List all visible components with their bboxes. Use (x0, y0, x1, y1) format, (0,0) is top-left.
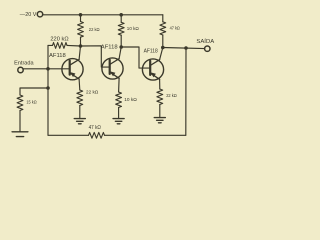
wire top rail (43, 14, 163, 16)
svg-text:SAÍDA: SAÍDA (196, 38, 214, 45)
svg-text:15 kΩ: 15 kΩ (26, 100, 36, 106)
wire R3 bottom (162, 35, 164, 48)
wire bias column (47, 45, 49, 135)
resistor R8 47k feedback (89, 132, 105, 138)
wire R1 bottom (80, 37, 82, 46)
wire Q3 collector up (160, 48, 163, 60)
wire feedback right column (185, 48, 187, 135)
wire 15k branch (20, 88, 48, 95)
label 220 kΩ (R4) (50, 36, 68, 42)
label 22 kΩ (R7) (166, 93, 177, 99)
resistor R7 22k emitter Q3 (157, 89, 163, 105)
node Q1 collector (79, 44, 83, 48)
wire coupling Q2-Q3 (121, 47, 150, 68)
wire 220k left stub (48, 44, 53, 46)
wire Q3 emitter down (159, 79, 161, 89)
svg-text:10 kΩ: 10 kΩ (127, 26, 139, 32)
node rail-R2 (119, 13, 123, 17)
label 10 kΩ (R6) (124, 97, 137, 103)
transistor Q1 AF118 (62, 59, 83, 80)
wire coupling Q1-Q2 (81, 46, 110, 67)
wire R2 top (120, 15, 122, 22)
terminal -20V (37, 12, 42, 17)
label 22 kΩ (R5) (86, 90, 99, 96)
svg-text:AF118: AF118 (49, 53, 66, 59)
wire R5 to ground (79, 106, 81, 119)
wire R9 to ground (19, 111, 21, 132)
svg-text:22 kΩ: 22 kΩ (166, 93, 177, 99)
wire R7 to ground (159, 105, 161, 118)
svg-text:22 kΩ: 22 kΩ (89, 27, 100, 33)
svg-text:—20 V: —20 V (20, 12, 37, 18)
resistor R9 15k bias divider (17, 95, 23, 111)
node rail-R1 (79, 13, 83, 17)
svg-text:Entrada: Entrada (14, 60, 34, 66)
node output feedback tap (184, 46, 188, 50)
wire bottom rail left (48, 134, 89, 136)
label 10 kΩ (R2) (127, 26, 139, 32)
ground Q3 emitter (154, 118, 165, 123)
svg-text:10 kΩ: 10 kΩ (124, 97, 137, 103)
wire Q1 collector up (79, 46, 80, 59)
label AF118 (Q2) (101, 44, 118, 50)
wire 220k right stub (67, 44, 81, 47)
terminal SAIDA output (205, 46, 210, 51)
svg-text:47 kΩ: 47 kΩ (170, 25, 180, 31)
label -20 V supply (20, 12, 37, 18)
svg-text:AF118: AF118 (101, 44, 118, 50)
wire Q1 emitter down (78, 79, 81, 90)
ground Q1 emitter (74, 119, 85, 124)
label Entrada (14, 60, 34, 66)
terminal Entrada input (18, 67, 23, 72)
svg-text:47 kΩ: 47 kΩ (89, 125, 102, 131)
svg-text:AF118: AF118 (144, 48, 158, 54)
transistor Q2 AF118 (102, 58, 123, 79)
node Q2 collector (119, 45, 123, 49)
label AF118 (Q3) (144, 48, 158, 54)
wire output (163, 48, 205, 49)
wire rail corner to R3 (162, 15, 164, 22)
label AF118 (Q1) (49, 53, 66, 59)
resistor R1 22k collector load Q1 (78, 22, 84, 38)
wire Q2 collector up (119, 47, 121, 59)
label 47 kΩ (R8) (89, 125, 102, 131)
wire input to Q1 base (23, 68, 69, 70)
resistor R5 22k emitter Q1 (77, 90, 83, 106)
resistor R4 220k feedback bias (53, 43, 68, 49)
ground 15k (12, 132, 28, 137)
wire R6 to ground (118, 108, 120, 119)
svg-text:22 kΩ: 22 kΩ (86, 90, 99, 96)
svg-text:220 kΩ: 220 kΩ (50, 36, 68, 42)
wire Q2 emitter down (118, 78, 121, 92)
label 15 kΩ (R9) (26, 100, 36, 106)
transistor Q3 AF118 (142, 59, 163, 80)
node 15k tap on bias column (46, 86, 50, 90)
node base/bias junction (46, 67, 50, 71)
ground Q2 emitter (113, 119, 124, 124)
label SAIDA (196, 38, 214, 45)
resistor R6 10k emitter Q2 (116, 92, 122, 108)
node Q3 collector / output (161, 46, 165, 50)
label 22 kΩ (R1) (89, 27, 100, 33)
resistor R2 10k collector load Q2 (118, 22, 124, 35)
wire R1 top (80, 15, 82, 22)
label 47 kΩ (R3) (170, 25, 180, 31)
wire R2 bottom (120, 35, 122, 47)
wire bottom rail right (105, 134, 186, 136)
resistor R3 47k collector load Q3 (160, 22, 166, 35)
